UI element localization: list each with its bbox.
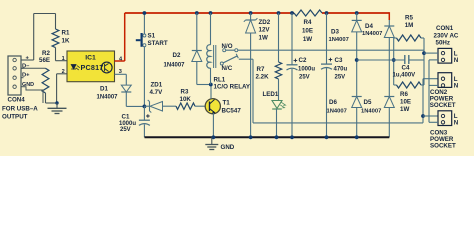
svg-text:1N4007: 1N4007 [97, 94, 119, 100]
svg-text:50Hz: 50Hz [436, 39, 450, 46]
svg-text:GND: GND [221, 144, 235, 151]
svg-text:1W: 1W [259, 35, 268, 42]
svg-text:IC1: IC1 [85, 54, 96, 61]
svg-text:1M: 1M [405, 22, 414, 29]
svg-text:ZD2: ZD2 [259, 19, 271, 26]
svg-text:PC817: PC817 [81, 63, 104, 72]
svg-text:D5: D5 [364, 99, 372, 106]
svg-text:N: N [454, 83, 459, 90]
svg-text:N: N [454, 120, 459, 127]
svg-text:D4: D4 [365, 23, 373, 30]
svg-text:D1: D1 [100, 86, 108, 93]
svg-text:R1: R1 [62, 30, 70, 37]
svg-text:C4: C4 [402, 65, 410, 72]
svg-text:C2: C2 [299, 57, 307, 64]
svg-text:1000u: 1000u [119, 121, 136, 127]
svg-text:230V AC: 230V AC [434, 32, 459, 39]
svg-text:2: 2 [62, 69, 65, 75]
svg-text:T1: T1 [223, 100, 231, 107]
svg-text:D6: D6 [329, 99, 337, 106]
svg-text:LED1: LED1 [263, 91, 279, 98]
svg-text:S1: S1 [148, 32, 156, 39]
svg-text:D2: D2 [173, 52, 181, 59]
svg-text:1K: 1K [62, 38, 70, 45]
svg-text:10E: 10E [400, 99, 411, 106]
svg-text:R4: R4 [304, 19, 312, 26]
svg-text:1C/O RELAY: 1C/O RELAY [214, 83, 251, 90]
svg-text:N/C: N/C [222, 65, 233, 72]
svg-text:D3: D3 [331, 29, 339, 36]
svg-text:25V: 25V [120, 127, 131, 133]
svg-text:56E: 56E [39, 57, 50, 64]
svg-text:1N4007: 1N4007 [361, 108, 381, 114]
svg-text:1000u: 1000u [298, 67, 315, 73]
svg-text:10E: 10E [302, 28, 313, 35]
svg-text:R5: R5 [405, 15, 413, 22]
svg-text:1N4007: 1N4007 [329, 37, 349, 43]
svg-text:OUTPUT: OUTPUT [2, 113, 28, 120]
svg-text:SOCKET: SOCKET [430, 143, 456, 150]
svg-text:BC547: BC547 [222, 108, 242, 115]
svg-text:1N4007: 1N4007 [362, 31, 382, 37]
svg-text:1u,400V: 1u,400V [393, 73, 416, 79]
svg-text:D+: D+ [22, 73, 30, 79]
svg-text:ZD1: ZD1 [151, 82, 163, 89]
svg-text:START: START [148, 40, 168, 47]
svg-text:N: N [454, 57, 459, 64]
svg-text:R2: R2 [42, 50, 50, 57]
svg-text:1W: 1W [400, 106, 409, 113]
svg-text:1N4007: 1N4007 [164, 63, 186, 69]
svg-text:CON1: CON1 [436, 25, 454, 32]
svg-text:25V: 25V [299, 75, 310, 81]
svg-text:2.2K: 2.2K [256, 74, 270, 81]
svg-text:12V: 12V [259, 27, 271, 34]
svg-text:C1: C1 [122, 114, 130, 121]
svg-text:25V: 25V [335, 75, 346, 81]
svg-text:R7: R7 [257, 66, 265, 73]
svg-text:1W: 1W [303, 36, 312, 43]
svg-text:R6: R6 [400, 91, 408, 98]
svg-text:470u: 470u [334, 67, 348, 73]
svg-text:SOCKET: SOCKET [430, 102, 456, 109]
svg-text:4.7V: 4.7V [150, 89, 164, 96]
svg-text:R3: R3 [181, 88, 189, 95]
svg-text:1: 1 [62, 56, 65, 62]
svg-text:C3: C3 [335, 57, 343, 64]
svg-text:10K: 10K [180, 96, 192, 103]
svg-text:1N4007: 1N4007 [327, 108, 347, 114]
svg-text:FOR USB–A: FOR USB–A [2, 105, 38, 112]
svg-text:CON4: CON4 [8, 97, 26, 104]
